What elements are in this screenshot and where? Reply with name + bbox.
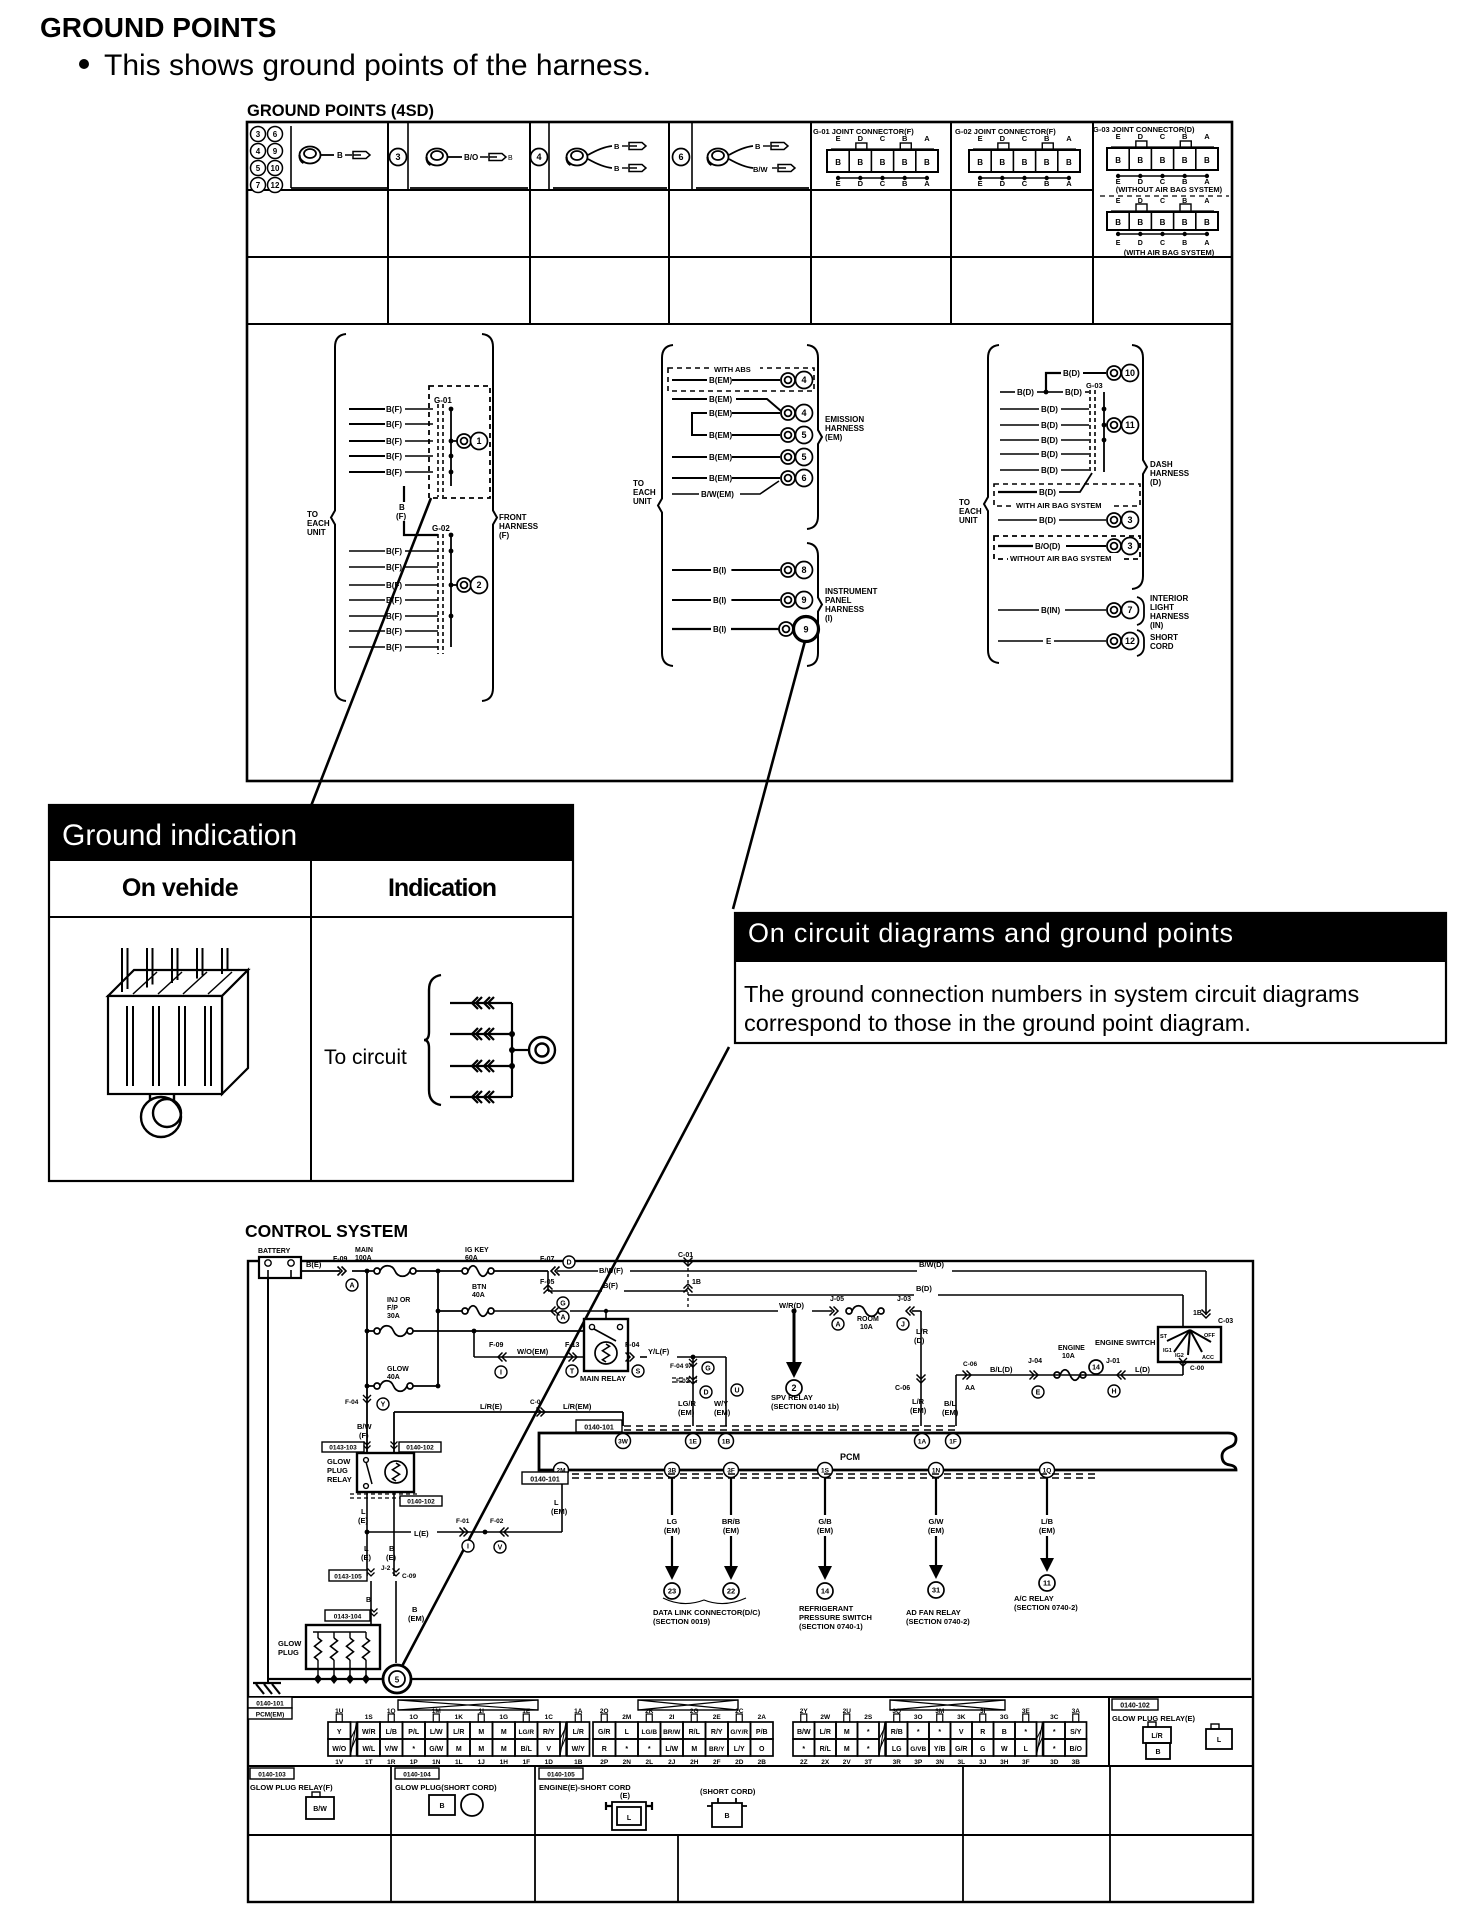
circled 3 separator [390, 149, 407, 166]
G-03 joint connector (with air bag) [1107, 198, 1218, 247]
indication wire 1 with chevrons [450, 1002, 512, 1004]
ground block wires [122, 948, 128, 992]
svg-text:(F): (F) [396, 512, 407, 521]
svg-text:(SECTION 0740-2): (SECTION 0740-2) [906, 1617, 970, 1626]
battery negative rail [267, 1278, 269, 1683]
wire B(EM) row2 [672, 398, 707, 400]
svg-text:3F: 3F [727, 1467, 735, 1474]
svg-text:L/B: L/B [386, 1729, 397, 1736]
svg-text:(D): (D) [914, 1336, 925, 1345]
svg-text:F-02: F-02 [490, 1518, 504, 1525]
svg-text:C: C [1160, 240, 1165, 247]
svg-text:1A: 1A [918, 1438, 927, 1445]
svg-text:G-02: G-02 [432, 524, 450, 533]
table row line (under icon cells) [247, 189, 1093, 191]
svg-text:UNIT: UNIT [959, 516, 978, 525]
svg-text:B: B [755, 142, 761, 151]
PCM pin 3F [724, 1463, 739, 1478]
svg-text:B/W(D): B/W(D) [919, 1260, 944, 1269]
svg-text:AA: AA [965, 1385, 975, 1392]
svg-text:12: 12 [271, 181, 280, 190]
wire B(EM) row4 [692, 434, 707, 436]
svg-text:A: A [1066, 134, 1072, 143]
relay out Y/L(F) [626, 1353, 635, 1362]
svg-text:EACH: EACH [307, 519, 330, 528]
svg-text:B(D): B(D) [1063, 369, 1080, 378]
svg-text:1D: 1D [545, 1759, 554, 1766]
svg-text:B(I): B(I) [713, 566, 727, 575]
svg-text:2Z: 2Z [800, 1759, 808, 1766]
svg-text:F-13: F-13 [565, 1342, 580, 1349]
svg-text:E: E [1046, 637, 1052, 646]
svg-text:E: E [978, 134, 983, 143]
svg-text:1S: 1S [365, 1714, 374, 1721]
table row line [247, 323, 1232, 325]
svg-text:F-09: F-09 [333, 1256, 348, 1263]
svg-text:A: A [924, 179, 930, 188]
svg-text:C: C [1160, 198, 1165, 205]
svg-text:0140-102: 0140-102 [406, 1445, 434, 1452]
below-relay wires [366, 1532, 368, 1576]
svg-text:2W: 2W [820, 1714, 831, 1721]
svg-text:L/R: L/R [912, 1397, 925, 1406]
svg-text:M: M [478, 1729, 484, 1736]
svg-text:G-03: G-03 [1086, 381, 1103, 390]
svg-text:B(F): B(F) [386, 581, 402, 590]
svg-text:ENGINE: ENGINE [1058, 1345, 1085, 1352]
svg-text:L/W: L/W [430, 1729, 443, 1736]
svg-text:G-01: G-01 [434, 396, 452, 405]
GLOW PLUG RELAY [322, 1442, 364, 1452]
svg-text:B(F): B(F) [386, 627, 402, 636]
svg-text:2J: 2J [668, 1759, 676, 1766]
svg-text:A: A [835, 1322, 840, 1329]
svg-text:L: L [1217, 1737, 1222, 1744]
svg-text:B(F): B(F) [386, 405, 402, 414]
svg-text:B(D): B(D) [1065, 388, 1082, 397]
svg-text:L/R(E): L/R(E) [480, 1402, 503, 1411]
table column line [950, 122, 952, 324]
svg-text:1J: 1J [478, 1759, 486, 1766]
on-vehicle ground block icon [108, 970, 248, 1094]
svg-text:D: D [1000, 179, 1006, 188]
svg-text:C: C [1022, 134, 1028, 143]
svg-text:1F: 1F [522, 1759, 530, 1766]
svg-text:BTN: BTN [472, 1284, 486, 1291]
indication wire 3 with chevrons [450, 1065, 512, 1067]
svg-text:31: 31 [932, 1586, 940, 1595]
svg-text:2P: 2P [600, 1759, 609, 1766]
svg-text:EMISSION: EMISSION [825, 415, 864, 424]
svg-text:B/W: B/W [357, 1422, 373, 1431]
svg-text:W/R: W/R [362, 1729, 376, 1736]
svg-text:E: E [836, 179, 841, 188]
svg-text:(SECTION 0740-1): (SECTION 0740-1) [799, 1622, 863, 1631]
svg-text:B: B [1182, 156, 1188, 165]
svg-text:SPV RELAY: SPV RELAY [771, 1393, 813, 1402]
svg-text:4: 4 [536, 152, 541, 162]
svg-text:A: A [349, 1283, 354, 1290]
svg-text:SHORT: SHORT [1150, 633, 1178, 642]
svg-text:O: O [759, 1746, 765, 1753]
svg-text:3G: 3G [1000, 1714, 1009, 1721]
pointer line from ground 9 to On-circuit box [733, 641, 805, 909]
svg-text:B: B [1115, 156, 1121, 165]
PCM output drops [671, 1478, 673, 1566]
indication ground symbol [529, 1037, 555, 1063]
svg-text:GLOW: GLOW [387, 1366, 409, 1373]
svg-text:B(EM): B(EM) [709, 474, 732, 483]
svg-text:2B: 2B [758, 1759, 767, 1766]
wire B(F) lower row 2 [349, 566, 385, 568]
svg-text:GROUND POINTS (4SD): GROUND POINTS (4SD) [247, 102, 434, 120]
svg-text:PCM: PCM [840, 1452, 860, 1462]
PCM connector pin grid group 2 [593, 1708, 773, 1766]
svg-text:E: E [1036, 1390, 1041, 1397]
svg-text:(D): (D) [1150, 478, 1161, 487]
circled 2 [471, 577, 488, 594]
wire B(D) row6 [1000, 453, 1039, 455]
svg-text:EACH: EACH [959, 507, 982, 516]
svg-text:40A: 40A [472, 1292, 485, 1299]
X-bracket group2 [638, 1700, 738, 1710]
PCM connector pin grid group 3 [793, 1708, 1087, 1766]
svg-text:TO: TO [633, 479, 644, 488]
svg-text:J-01: J-01 [1106, 1358, 1120, 1365]
svg-text:40A: 40A [387, 1374, 400, 1381]
svg-text:A: A [1204, 198, 1209, 205]
svg-text:INTERIOR: INTERIOR [1150, 594, 1188, 603]
svg-text:V: V [959, 1729, 964, 1736]
svg-text:B(D): B(D) [916, 1284, 932, 1293]
wire B(EM) row5 [672, 456, 707, 458]
svg-text:W/O(EM): W/O(EM) [517, 1347, 549, 1356]
svg-text:E: E [978, 179, 983, 188]
svg-text:(EM): (EM) [678, 1408, 695, 1417]
ground block face lines [127, 1006, 133, 1086]
svg-text:*: * [802, 1746, 805, 1753]
svg-text:On vehide: On vehide [122, 874, 239, 902]
svg-text:C: C [880, 134, 886, 143]
svg-text:D: D [1138, 240, 1143, 247]
svg-text:3P: 3P [914, 1759, 923, 1766]
svg-text:ACC: ACC [1202, 1355, 1214, 1361]
svg-text:R/B: R/B [891, 1729, 903, 1736]
svg-text:3W: 3W [618, 1438, 629, 1445]
svg-text:LG: LG [892, 1746, 902, 1753]
svg-text:Y: Y [381, 1402, 386, 1409]
svg-text:C-03: C-03 [1218, 1318, 1233, 1325]
svg-text:S/Y: S/Y [1070, 1729, 1082, 1736]
PCM top dashed connector 0140-101 [600, 1425, 958, 1427]
svg-text:B: B [924, 158, 930, 167]
svg-text:2I: 2I [669, 1714, 675, 1721]
WITHOUT AIR BAG SYSTEM dashed box [994, 536, 1140, 559]
center group brace [658, 345, 673, 666]
wire B(F) lower row 6 [349, 630, 385, 632]
svg-text:A: A [560, 1315, 565, 1322]
svg-text:B(F): B(F) [386, 468, 402, 477]
svg-text:TO: TO [307, 510, 318, 519]
svg-text:1T: 1T [365, 1759, 373, 1766]
svg-text:B: B [999, 158, 1005, 167]
svg-text:A: A [1066, 179, 1072, 188]
svg-text:ENGINE(E)-SHORT CORD: ENGINE(E)-SHORT CORD [539, 1783, 631, 1792]
G-03 dashed strip [1089, 390, 1091, 472]
wire to IG KEY fuse [416, 1270, 462, 1272]
svg-text:LG/R: LG/R [678, 1399, 696, 1408]
svg-text:L/R: L/R [453, 1729, 464, 1736]
svg-text:2: 2 [476, 580, 481, 590]
svg-text:1C: 1C [545, 1714, 554, 1721]
Ground indication box [49, 805, 573, 1181]
table column line [529, 122, 531, 324]
svg-text:1L: 1L [455, 1759, 463, 1766]
connector strip frame [248, 1696, 1253, 1698]
svg-text:1B: 1B [1193, 1310, 1202, 1317]
svg-text:3: 3 [256, 130, 261, 139]
svg-text:B: B [857, 158, 863, 167]
svg-text:11: 11 [1043, 1579, 1051, 1588]
PCM pin 1E [686, 1434, 701, 1449]
svg-text:UNIT: UNIT [307, 528, 326, 537]
svg-text:J-03: J-03 [897, 1296, 911, 1303]
svg-text:12: 12 [1125, 636, 1135, 646]
svg-text:A: A [1204, 132, 1210, 141]
indication wire 4 with chevrons [450, 1096, 512, 1098]
PCM pin 1F [946, 1434, 961, 1449]
svg-text:B(F): B(F) [386, 452, 402, 461]
svg-text:B(E): B(E) [306, 1260, 322, 1269]
svg-text:C-06: C-06 [963, 1361, 977, 1368]
svg-text:1E: 1E [689, 1438, 698, 1445]
svg-text:1F: 1F [949, 1438, 957, 1445]
svg-text:C: C [1160, 132, 1166, 141]
svg-text:D: D [858, 179, 864, 188]
wire to main relay [413, 1330, 584, 1332]
chassis ground [253, 1683, 281, 1694]
svg-text:B: B [399, 503, 405, 512]
svg-text:5: 5 [395, 1676, 400, 1685]
svg-text:W/O: W/O [332, 1746, 347, 1753]
svg-text:2H: 2H [690, 1759, 699, 1766]
PCM connector pin grid group 1 [328, 1708, 590, 1766]
svg-text:100A: 100A [355, 1255, 372, 1262]
wire B(D) row2 [1000, 391, 1015, 393]
svg-text:(E): (E) [386, 1553, 397, 1562]
svg-text:0140-101: 0140-101 [530, 1477, 560, 1484]
svg-text:(EM): (EM) [408, 1614, 425, 1623]
svg-text:B: B [1044, 179, 1050, 188]
svg-text:0140-101: 0140-101 [584, 1425, 614, 1432]
svg-text:W/R(D): W/R(D) [779, 1301, 804, 1310]
svg-text:(F): (F) [359, 1431, 369, 1440]
bullet [79, 59, 89, 69]
wire B(F) down-link to G-02 [404, 486, 438, 535]
svg-text:G/B: G/B [818, 1517, 832, 1526]
GLOW PLUG unit [306, 1625, 380, 1669]
right group brace [984, 345, 999, 663]
svg-text:A/C RELAY: A/C RELAY [1014, 1594, 1054, 1603]
svg-text:D: D [703, 1390, 708, 1397]
svg-text:PLUG: PLUG [327, 1466, 348, 1475]
svg-text:Y/L(F): Y/L(F) [648, 1347, 670, 1356]
wire B(EM) row6 [672, 477, 707, 479]
svg-text:0140-105: 0140-105 [547, 1772, 575, 1779]
svg-text:L/W: L/W [665, 1746, 678, 1753]
W/O(EM) row to relay coil [473, 1331, 475, 1357]
svg-text:R/L: R/L [689, 1729, 701, 1736]
svg-text:1S: 1S [821, 1467, 830, 1474]
table column line [668, 122, 670, 324]
svg-text:GLOW: GLOW [327, 1457, 351, 1466]
ground block top hatches [133, 972, 157, 994]
svg-text:PANEL: PANEL [825, 596, 852, 605]
svg-text:3: 3 [1127, 515, 1132, 525]
svg-text:0140-104: 0140-104 [403, 1772, 431, 1779]
svg-text:3C: 3C [1050, 1714, 1059, 1721]
svg-text:B/O: B/O [1070, 1746, 1083, 1753]
MAIN RELAY [584, 1319, 628, 1371]
svg-text:GLOW: GLOW [278, 1639, 302, 1648]
svg-text:Ground indication: Ground indication [62, 819, 297, 852]
svg-text:B: B [1044, 158, 1050, 167]
svg-text:D: D [1138, 132, 1144, 141]
pointer line from G-01 to Ground indication box [311, 498, 431, 806]
svg-text:M: M [456, 1746, 462, 1753]
svg-text:EACH: EACH [633, 488, 656, 497]
svg-text:On circuit diagrams and ground: On circuit diagrams and ground points [748, 918, 1234, 948]
svg-text:14: 14 [1092, 1365, 1100, 1372]
svg-text:*: * [1053, 1729, 1056, 1736]
svg-text:B(D): B(D) [1039, 488, 1056, 497]
svg-text:3T: 3T [864, 1759, 872, 1766]
svg-text:D: D [566, 1260, 571, 1267]
svg-text:BR/W: BR/W [663, 1729, 681, 1736]
svg-text:(EM): (EM) [817, 1526, 834, 1535]
svg-text:10: 10 [1125, 368, 1135, 378]
svg-text:3H: 3H [1000, 1759, 1009, 1766]
svg-text:4: 4 [256, 147, 261, 156]
svg-text:R/L: R/L [820, 1746, 832, 1753]
junction rail x367 [366, 1271, 368, 1453]
G-02 joint connector [955, 127, 1080, 188]
svg-text:*: * [917, 1729, 920, 1736]
PCM box [539, 1433, 1236, 1470]
svg-text:R/Y: R/Y [711, 1729, 723, 1736]
wire B(D) row3 [1000, 408, 1039, 410]
svg-text:J-04: J-04 [1028, 1358, 1042, 1365]
circled 1 [471, 433, 488, 450]
svg-text:*: * [867, 1746, 870, 1753]
wire B(F) upper row 2 [349, 423, 385, 425]
svg-text:*: * [412, 1746, 415, 1753]
wire B(F) lower row 4 [349, 599, 385, 601]
svg-text:M: M [478, 1746, 484, 1753]
svg-text:C-00: C-00 [1190, 1365, 1204, 1372]
svg-text:(SECTION 0140 1b): (SECTION 0140 1b) [771, 1402, 839, 1411]
short cord connector [707, 1798, 747, 1827]
svg-text:H: H [1111, 1389, 1116, 1396]
svg-text:4: 4 [801, 375, 806, 385]
svg-text:B(I): B(I) [713, 625, 727, 634]
svg-text:WITH AIR BAG SYSTEM: WITH AIR BAG SYSTEM [1016, 501, 1102, 510]
svg-text:correspond to those in the gro: correspond to those in the ground point … [744, 1010, 1251, 1036]
G-03 joint connector (without air bag) [1093, 125, 1218, 186]
eyelet terminal icon 2 (B/O) [427, 149, 448, 166]
wire B(I) row2 [672, 599, 711, 601]
svg-text:L/Y: L/Y [734, 1746, 745, 1753]
svg-text:(EM): (EM) [942, 1408, 959, 1417]
svg-text:B: B [389, 1544, 395, 1553]
svg-text:6: 6 [801, 473, 806, 483]
svg-text:M: M [501, 1746, 507, 1753]
wire B(F) lower row 1 [349, 550, 385, 552]
svg-text:G/R: G/R [955, 1746, 967, 1753]
relay L(E) lead [366, 1492, 368, 1532]
wire B(F) upper row 3 [349, 440, 385, 442]
svg-text:B(D): B(D) [1041, 405, 1058, 414]
svg-text:B(IN): B(IN) [1041, 606, 1060, 615]
emission harness brace [807, 345, 822, 529]
wire W/R(F) [494, 1310, 556, 1312]
PCM pin 1A [915, 1434, 930, 1449]
svg-text:G: G [560, 1301, 566, 1308]
svg-text:B(F): B(F) [603, 1281, 618, 1290]
svg-text:B: B [724, 1813, 729, 1820]
svg-text:1G: 1G [499, 1714, 508, 1721]
svg-text:MAIN RELAY: MAIN RELAY [580, 1374, 626, 1383]
svg-text:3R: 3R [893, 1759, 902, 1766]
svg-text:G/R: G/R [598, 1729, 610, 1736]
wire B(D) row5 [1000, 439, 1039, 441]
svg-text:F-01: F-01 [456, 1518, 470, 1525]
wire B(F) lower row 3 [349, 584, 385, 586]
svg-text:2D: 2D [735, 1759, 744, 1766]
svg-text:E: E [1116, 132, 1121, 141]
svg-text:RELAY: RELAY [327, 1475, 352, 1484]
svg-text:L: L [1024, 1746, 1029, 1753]
svg-text:B(D): B(D) [1017, 388, 1034, 397]
svg-text:L: L [625, 1729, 630, 1736]
svg-text:R: R [980, 1729, 985, 1736]
svg-text:L/R: L/R [1151, 1733, 1162, 1740]
circled 4 separator [531, 149, 548, 166]
X-bracket group1 [398, 1700, 538, 1710]
svg-text:B(D): B(D) [1041, 436, 1058, 445]
svg-text:3N: 3N [936, 1759, 945, 1766]
dash harness brace [1132, 345, 1147, 589]
PCM pin 1S [818, 1463, 833, 1478]
svg-text:B(EM): B(EM) [709, 431, 732, 440]
svg-text:2L: 2L [645, 1759, 653, 1766]
svg-text:P/B: P/B [756, 1729, 768, 1736]
svg-text:2S: 2S [864, 1714, 873, 1721]
svg-text:GLOW PLUG(SHORT CORD): GLOW PLUG(SHORT CORD) [395, 1783, 497, 1792]
L/R(E) wire [394, 1411, 623, 1413]
svg-text:M: M [844, 1746, 850, 1753]
junction rail x438 [437, 1271, 439, 1386]
svg-text:(EM): (EM) [928, 1526, 945, 1535]
svg-text:F/P: F/P [387, 1305, 398, 1312]
svg-text:HARNESS: HARNESS [1150, 469, 1190, 478]
svg-text:(IN): (IN) [1150, 621, 1164, 630]
svg-text:2M: 2M [622, 1714, 631, 1721]
svg-text:60A: 60A [465, 1255, 478, 1262]
circled 6 separator [673, 149, 690, 166]
relay B(E) lead [393, 1492, 395, 1576]
bracket rows3-4 [692, 413, 707, 435]
